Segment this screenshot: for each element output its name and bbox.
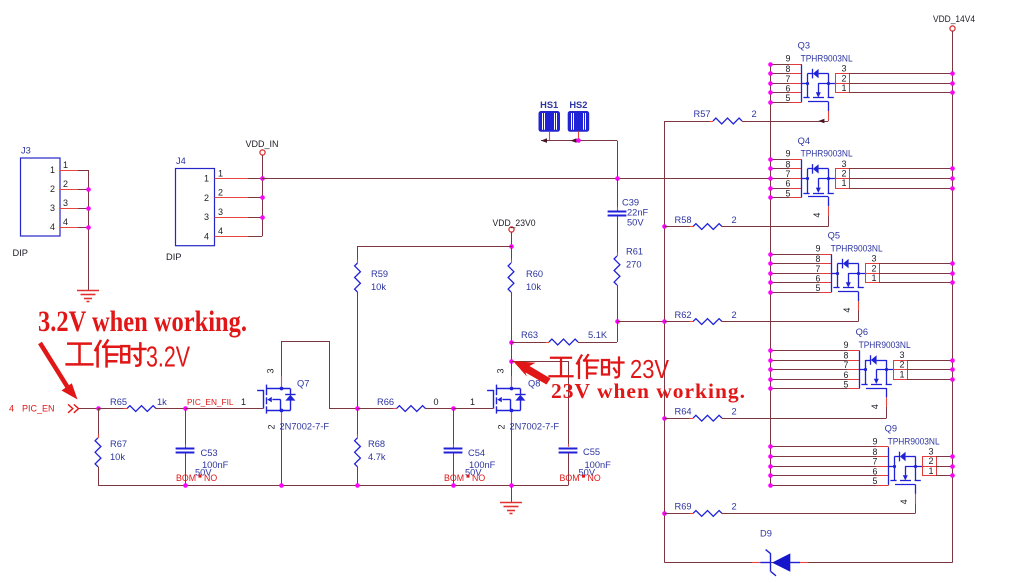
svg-text:Q3: Q3: [798, 41, 810, 51]
svg-text:3: 3: [50, 203, 55, 213]
wire Q4 pin 4: [828, 197, 830, 206]
heatsink HS2: [568, 112, 589, 132]
wire VDD_14V4 bus: [952, 31, 954, 563]
resistor R61: [614, 256, 620, 285]
wire to Q8 gate: [453, 408, 493, 410]
mosfet Q9 TPHR9003NL: [770, 446, 877, 448]
svg-text:7: 7: [816, 264, 821, 274]
resistor R68: [357, 409, 359, 438]
wire Q3 pin 2: [849, 83, 953, 85]
svg-text:2: 2: [267, 424, 277, 429]
svg-text:3: 3: [871, 254, 876, 264]
svg-text:7: 7: [844, 360, 849, 370]
svg-text:5: 5: [786, 188, 791, 198]
svg-text:2: 2: [204, 193, 209, 203]
svg-text:2: 2: [732, 502, 737, 512]
resistor R67: [98, 409, 100, 438]
wire Q5 pin 4: [858, 292, 860, 301]
svg-text:VDD_23V0: VDD_23V0: [493, 218, 536, 228]
node R61 junction: [615, 319, 620, 324]
svg-text:270: 270: [626, 260, 642, 270]
capacitor C54: [453, 409, 455, 449]
svg-text:4: 4: [218, 226, 223, 236]
svg-text:J3: J3: [21, 146, 31, 156]
wire C39 to R61: [617, 216, 619, 256]
svg-text:1k: 1k: [157, 397, 167, 407]
resistor R60: [511, 246, 513, 263]
wire Q6 pin 1: [907, 379, 953, 381]
svg-text:9: 9: [785, 53, 790, 63]
svg-text:50V: 50V: [627, 218, 644, 228]
wire Q4 right box: [835, 169, 850, 189]
wire Q8 source lead: [511, 412, 513, 423]
wire J4 pins: [215, 178, 249, 180]
svg-text:2: 2: [841, 73, 846, 83]
svg-text:10k: 10k: [371, 282, 386, 292]
ground main: [511, 486, 513, 503]
connector J4: [176, 169, 215, 246]
svg-text:3: 3: [928, 447, 933, 457]
svg-text:6: 6: [844, 370, 849, 380]
wire R61 bottom: [617, 285, 619, 322]
wire to C55: [511, 361, 568, 363]
mosfet Q5 TPHR9003NL: [770, 254, 820, 256]
svg-text:8: 8: [844, 351, 849, 361]
svg-text:VDD_14V4: VDD_14V4: [933, 14, 975, 24]
annotation arrow right: [513, 361, 551, 385]
svg-text:3: 3: [204, 212, 209, 222]
svg-text:10k: 10k: [110, 452, 125, 462]
svg-text:2: 2: [50, 184, 55, 194]
svg-text:1: 1: [241, 397, 246, 407]
svg-text:BOM: BOM: [176, 473, 196, 483]
svg-text:C53: C53: [201, 448, 218, 458]
capacitor C39: [617, 179, 619, 211]
node J4 junctions: [260, 195, 265, 200]
wire Q5 pin 3: [879, 263, 953, 265]
svg-text:D9: D9: [760, 529, 772, 539]
svg-text:TPHR9003NL: TPHR9003NL: [801, 53, 853, 63]
svg-text:3: 3: [266, 368, 276, 373]
node PIC_EN entry: [68, 404, 79, 412]
svg-text:2: 2: [732, 310, 737, 320]
capacitor C55: [559, 448, 578, 450]
wire Q3 pin 4: [828, 102, 830, 111]
wire HS2 pin: [578, 131, 580, 140]
svg-text:1: 1: [470, 397, 475, 407]
resistor R59: [357, 246, 359, 263]
svg-text:R65: R65: [110, 397, 127, 407]
wire J4 bus: [262, 179, 264, 237]
svg-text:TPHR9003NL: TPHR9003NL: [888, 436, 940, 446]
wire Q9 pin 1: [936, 475, 953, 477]
wire Q5 right box: [865, 264, 880, 283]
wire Q6 right box: [893, 360, 908, 380]
svg-text:3: 3: [841, 159, 846, 169]
svg-text:1: 1: [871, 273, 876, 283]
svg-text:R68: R68: [368, 439, 385, 449]
wire mosfet left bus: [770, 64, 772, 485]
wire Q9 pin 3: [936, 456, 953, 458]
svg-text:3.2V when working.: 3.2V when working.: [38, 305, 247, 338]
svg-text:Q7: Q7: [297, 379, 309, 389]
svg-text:1: 1: [899, 369, 904, 379]
svg-text:R67: R67: [110, 439, 127, 449]
svg-text:2: 2: [218, 188, 223, 198]
svg-text:NO: NO: [204, 473, 217, 483]
resistor R64: [662, 416, 667, 421]
wire J3 bus: [88, 170, 90, 290]
svg-text:3: 3: [218, 207, 223, 217]
svg-text:6: 6: [873, 466, 878, 476]
svg-text:R62: R62: [675, 310, 692, 320]
svg-text:5.1K: 5.1K: [588, 330, 608, 340]
svg-text:1: 1: [928, 466, 933, 476]
svg-text:1: 1: [50, 165, 55, 175]
svg-text:PIC_EN_FIL: PIC_EN_FIL: [187, 397, 234, 407]
power VDD_IN: [260, 150, 265, 155]
svg-text:PIC_EN: PIC_EN: [22, 404, 55, 414]
wire Q6 pin 3: [907, 360, 953, 362]
node C54 junction: [451, 406, 456, 411]
svg-text:HS2: HS2: [569, 100, 587, 110]
connector J3: [21, 158, 61, 236]
wire HS1 pin: [549, 131, 551, 140]
svg-text:5: 5: [873, 476, 878, 486]
node Q8 drain junction: [511, 342, 513, 361]
annotation arrow left: [40, 343, 70, 391]
svg-text:C54: C54: [468, 448, 485, 458]
svg-text:4: 4: [899, 499, 909, 504]
wire Q3 pin 3: [849, 73, 953, 75]
svg-text:9: 9: [843, 340, 848, 350]
node C39 top junction: [615, 176, 620, 181]
node PIC_EN_FIL junction: [183, 406, 188, 411]
svg-text:Q5: Q5: [828, 231, 840, 241]
svg-text:NO: NO: [588, 473, 601, 483]
svg-text:9: 9: [872, 436, 877, 446]
svg-text:2: 2: [752, 109, 757, 119]
wire Q4 pin 1: [849, 188, 953, 190]
svg-text:8: 8: [816, 254, 821, 264]
resistor R63: [511, 342, 549, 344]
node rail junctions: [183, 483, 188, 488]
svg-text:5: 5: [844, 379, 849, 389]
svg-text:4: 4: [870, 404, 880, 409]
heatsink HS1: [539, 112, 560, 132]
svg-text:10k: 10k: [526, 282, 541, 292]
node R65 junction: [96, 406, 101, 411]
svg-text:TPHR9003NL: TPHR9003NL: [801, 149, 853, 159]
node R66 left junction: [355, 406, 360, 411]
wire Q6 pin 4: [886, 388, 888, 397]
svg-text:1: 1: [841, 83, 846, 93]
power VDD_23V0: [509, 227, 514, 232]
svg-text:4: 4: [842, 308, 852, 313]
ground J3: [77, 290, 99, 292]
arrowhead R57: [818, 119, 824, 124]
svg-text:3.2V: 3.2V: [146, 342, 190, 374]
svg-text:NO: NO: [472, 473, 485, 483]
svg-text:2: 2: [899, 360, 904, 370]
wire R59 bottom: [357, 292, 359, 409]
svg-text:3: 3: [899, 350, 904, 360]
wire heatsink net: [541, 140, 617, 142]
svg-text:BOM: BOM: [444, 473, 464, 483]
resistor R58: [662, 224, 667, 229]
svg-text:1: 1: [63, 160, 68, 170]
svg-text:C39: C39: [622, 198, 639, 208]
svg-text:TPHR9003NL: TPHR9003NL: [831, 243, 883, 253]
wire Q3 pin 1: [849, 92, 953, 94]
capacitor C53: [185, 409, 187, 449]
svg-text:2N7002-7-F: 2N7002-7-F: [280, 422, 330, 432]
wire gate bus vertical: [664, 121, 666, 563]
node R63 junction: [509, 340, 514, 345]
svg-text:7: 7: [786, 169, 791, 179]
svg-text:4: 4: [9, 404, 14, 414]
svg-text:7: 7: [786, 74, 791, 84]
wire R61 to gate bus: [617, 321, 665, 323]
wire to Q7 gate: [185, 408, 263, 410]
wire Q8 drain lead: [511, 376, 513, 387]
svg-text:Q8: Q8: [528, 379, 540, 389]
svg-text:VDD_IN: VDD_IN: [246, 139, 279, 149]
wire Q5 pin 2: [879, 273, 953, 275]
svg-text:22nF: 22nF: [627, 208, 649, 218]
mosfet Q3 TPHR9003NL: [770, 64, 790, 66]
wire bottom net: [665, 562, 953, 564]
svg-text:R60: R60: [526, 269, 543, 279]
wire bottom rail: [98, 485, 568, 487]
svg-text:R69: R69: [675, 502, 692, 512]
wire Q6 pin 2: [907, 369, 953, 371]
mosfet Q4 TPHR9003NL: [770, 159, 790, 161]
svg-text:3: 3: [63, 198, 68, 208]
resistor R65: [98, 408, 127, 410]
svg-text:9: 9: [815, 243, 820, 253]
wire Q9 pin 4: [915, 485, 917, 494]
svg-text:23V when working.: 23V when working.: [551, 379, 745, 403]
svg-text:3: 3: [841, 64, 846, 74]
wire Q5 pin 1: [879, 282, 953, 284]
svg-text:6: 6: [786, 179, 791, 189]
resistor R69: [662, 511, 667, 516]
svg-text:2: 2: [497, 424, 507, 429]
svg-text:4: 4: [63, 217, 68, 227]
wire J3 pins: [60, 170, 78, 172]
svg-text:5: 5: [816, 283, 821, 293]
wire PIC_EN: [79, 408, 98, 410]
svg-text:5: 5: [786, 93, 791, 103]
annotation gongzuoshi 23V: [550, 358, 573, 377]
svg-text:1: 1: [218, 168, 223, 178]
svg-text:4: 4: [50, 222, 55, 232]
svg-text:4: 4: [812, 213, 822, 218]
svg-text:8: 8: [873, 447, 878, 457]
node HS2 junction: [576, 138, 581, 143]
svg-text:6: 6: [816, 273, 821, 283]
svg-text:Q6: Q6: [856, 327, 868, 337]
wire Q9 right box: [922, 457, 937, 476]
svg-text:DIP: DIP: [166, 252, 182, 262]
svg-text:4.7k: 4.7k: [368, 452, 386, 462]
svg-text:1: 1: [204, 174, 209, 184]
wire Q7 drain loop: [281, 341, 283, 376]
wire Q4 pin 3: [849, 168, 953, 170]
wire Q7 source lead: [281, 412, 283, 423]
resistor R62: [662, 319, 667, 324]
svg-text:R58: R58: [675, 215, 692, 225]
svg-text:2: 2: [928, 456, 933, 466]
svg-text:2: 2: [871, 263, 876, 273]
transistor Q8 2N7002-7-F: [487, 385, 525, 414]
node J3 junctions: [86, 187, 91, 192]
svg-text:R64: R64: [675, 406, 692, 416]
svg-text:9: 9: [785, 149, 790, 159]
svg-text:R57: R57: [694, 109, 711, 119]
wire Q7 drain lead: [281, 376, 283, 387]
svg-text:8: 8: [786, 64, 791, 74]
svg-text:TPHR9003NL: TPHR9003NL: [859, 340, 911, 350]
wire Q3 right box: [835, 74, 850, 93]
svg-text:C55: C55: [583, 447, 600, 457]
annotation gongzuoshi 3.2V: [67, 344, 93, 365]
svg-text:2: 2: [732, 406, 737, 416]
svg-text:7: 7: [873, 457, 878, 467]
mosfet Q6 TPHR9003NL: [770, 350, 848, 352]
svg-text:Q9: Q9: [885, 424, 897, 434]
svg-text:R61: R61: [626, 247, 643, 257]
svg-text:4: 4: [204, 231, 209, 241]
svg-text:8: 8: [786, 160, 791, 170]
svg-text:2: 2: [732, 215, 737, 225]
svg-text:HS1: HS1: [540, 100, 558, 110]
svg-text:R66: R66: [377, 397, 394, 407]
svg-text:2: 2: [841, 169, 846, 179]
node VDD_IN junction: [260, 176, 265, 181]
resistor R66: [358, 408, 397, 410]
wire R63 right leg: [617, 322, 619, 342]
wire Q9 pin 2: [936, 466, 953, 468]
svg-text:BOM: BOM: [560, 473, 580, 483]
svg-text:0: 0: [434, 397, 439, 407]
svg-text:R63: R63: [521, 330, 538, 340]
svg-text:Q4: Q4: [798, 136, 810, 146]
svg-text:3: 3: [496, 368, 506, 373]
resistor R57: [665, 121, 714, 123]
wire Q4 pin 2: [849, 178, 953, 180]
svg-text:1: 1: [841, 178, 846, 188]
wire top link R59 R60: [358, 246, 512, 248]
svg-text:2N7002-7-F: 2N7002-7-F: [510, 422, 560, 432]
svg-text:6: 6: [786, 83, 791, 93]
transistor Q7 2N7002-7-F: [257, 385, 296, 414]
svg-text:J4: J4: [176, 156, 186, 166]
power VDD_14V4: [950, 26, 955, 31]
wire R60 bottom: [511, 292, 513, 342]
wire main rail VDD_IN: [262, 178, 770, 180]
svg-text:DIP: DIP: [13, 248, 29, 258]
svg-text:2: 2: [63, 179, 68, 189]
node VDD_23V0 junction: [509, 244, 514, 249]
svg-text:R59: R59: [371, 269, 388, 279]
